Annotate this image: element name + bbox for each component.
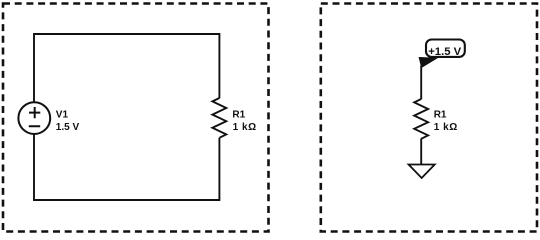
wire: flag to resistor	[420, 66, 422, 100]
svg-text:1 kΩ: 1 kΩ	[434, 122, 458, 133]
ground	[409, 165, 435, 179]
wire: left wire upper segment	[33, 33, 35, 102]
svg-text:R1: R1	[434, 110, 447, 121]
right panel dashed frame	[321, 4, 537, 232]
wire: bottom wire of left loop	[34, 199, 219, 201]
svg-text:1 kΩ: 1 kΩ	[233, 122, 257, 133]
wire: right wire upper segment	[218, 33, 220, 98]
wire: left wire lower segment	[33, 134, 35, 201]
net label flag +1.5 V	[419, 40, 465, 68]
resistor R1 (right)	[414, 99, 428, 139]
voltage source V1	[18, 102, 50, 134]
svg-text:R1: R1	[232, 110, 245, 121]
wire: right wire lower segment	[218, 138, 220, 201]
svg-text:1.5 V: 1.5 V	[56, 122, 80, 133]
left panel dashed frame	[3, 4, 269, 232]
wire: resistor to ground	[420, 139, 422, 165]
resistor R1 (left)	[212, 98, 226, 138]
svg-text:V1: V1	[56, 110, 69, 121]
svg-text:+1.5 V: +1.5 V	[428, 46, 461, 58]
wire: top wire of left loop	[34, 33, 219, 35]
